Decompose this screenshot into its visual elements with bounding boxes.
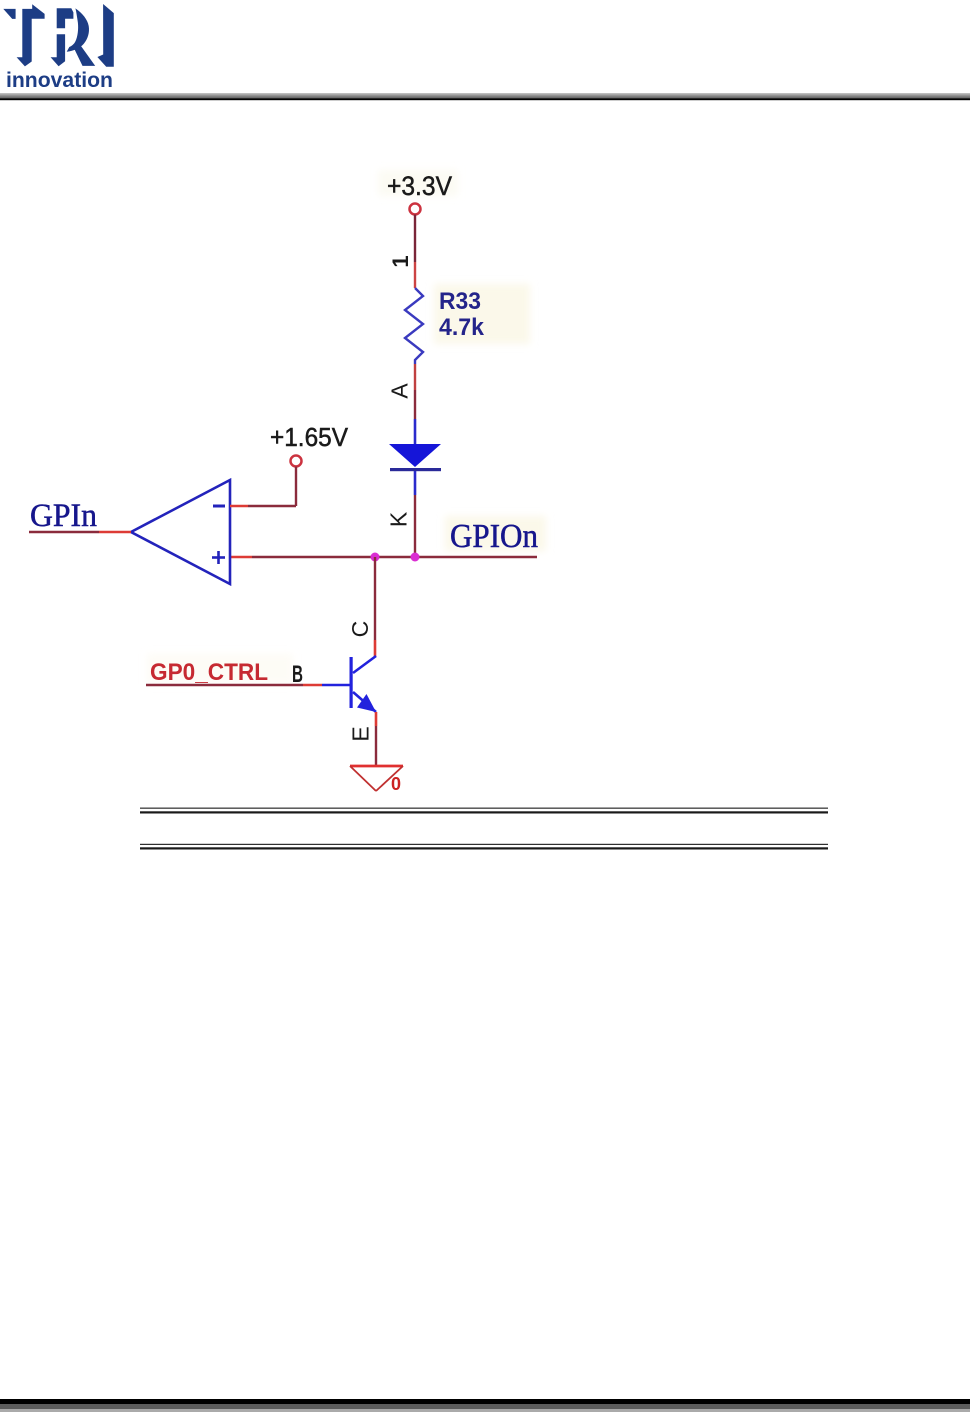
svg-text:A: A <box>387 383 413 399</box>
svg-text:GPIn: GPIn <box>30 498 97 534</box>
svg-text:B: B <box>292 661 303 688</box>
svg-text:E: E <box>348 726 374 741</box>
svg-text:C: C <box>347 621 373 638</box>
svg-text:GPIOn: GPIOn <box>450 518 538 555</box>
svg-text:+3.3V: +3.3V <box>387 171 452 201</box>
svg-text:K: K <box>386 511 412 527</box>
svg-text:1: 1 <box>388 255 413 267</box>
svg-text:innovation: innovation <box>6 69 113 92</box>
svg-text:+1.65V: +1.65V <box>270 422 349 452</box>
svg-text:GP0_CTRL: GP0_CTRL <box>150 659 268 686</box>
svg-text:R33: R33 <box>439 288 481 315</box>
svg-text:4.7k: 4.7k <box>439 314 485 341</box>
svg-text:0: 0 <box>391 774 401 794</box>
